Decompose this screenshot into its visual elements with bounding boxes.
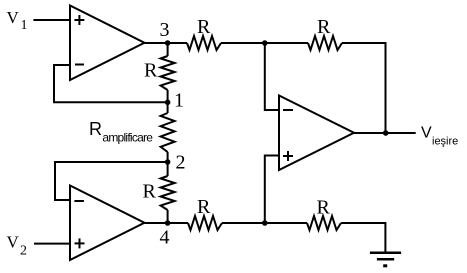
svg-text:R: R xyxy=(144,60,158,82)
svg-text:4: 4 xyxy=(160,227,170,249)
svg-text:2: 2 xyxy=(20,244,27,259)
svg-text:V: V xyxy=(421,125,432,142)
svg-text:1: 1 xyxy=(174,90,184,112)
svg-text:V: V xyxy=(7,233,20,252)
svg-text:ieşire: ieşire xyxy=(432,136,458,148)
svg-text:2: 2 xyxy=(176,152,186,174)
svg-text:R: R xyxy=(317,16,331,38)
svg-text:3: 3 xyxy=(160,19,170,41)
svg-text:V: V xyxy=(7,8,20,27)
svg-text:R: R xyxy=(143,181,157,203)
svg-text:1: 1 xyxy=(21,18,28,33)
svg-text:amplificare: amplificare xyxy=(102,130,153,144)
svg-text:R: R xyxy=(197,16,211,38)
svg-text:R: R xyxy=(89,119,102,139)
svg-text:R: R xyxy=(317,196,331,218)
svg-text:R: R xyxy=(197,196,211,218)
